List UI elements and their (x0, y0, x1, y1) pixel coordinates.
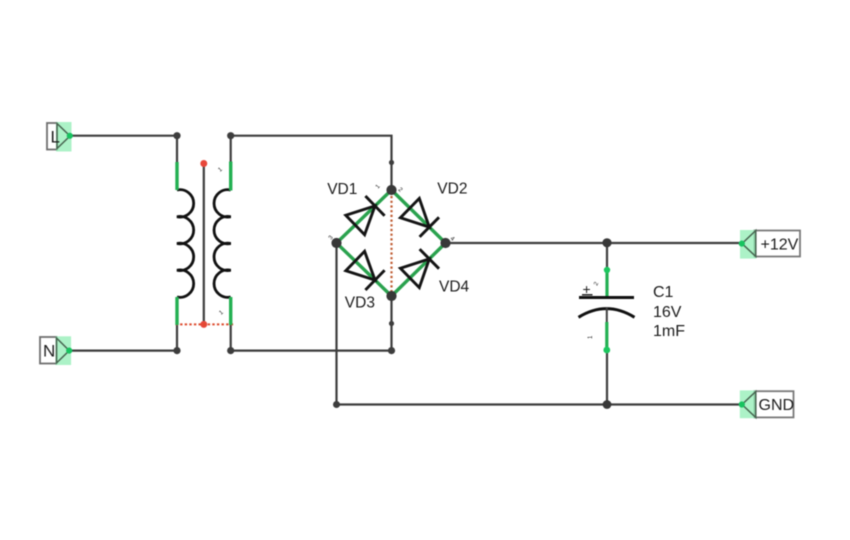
wire N to transformer primary bottom (69, 325, 177, 351)
svg-text:1mF: 1mF (653, 323, 685, 340)
svg-text:1: 1 (218, 309, 225, 316)
svg-text:VD1: VD1 (327, 181, 357, 198)
capacitor C1 top plate (579, 296, 634, 299)
terminal N (40, 336, 72, 365)
svg-text:N: N (43, 342, 55, 361)
transformer T1 secondary coil (214, 190, 231, 298)
diode VD1 (346, 196, 385, 235)
bridge vertex dot top (386, 185, 396, 195)
diode VD3 (346, 251, 385, 290)
bridge vertex dot bottom (386, 291, 396, 301)
svg-text:+12V: +12V (761, 237, 799, 254)
transformer core red dot bottom (200, 321, 207, 328)
svg-text:2: 2 (397, 187, 404, 194)
transformer red dashed line (176, 323, 234, 325)
wire secondary bottom to bridge bottom (231, 296, 392, 351)
bridge edge bottom-right (392, 243, 446, 296)
terminal GND (739, 390, 794, 418)
capacitor C1 pin bottom green (605, 322, 608, 350)
transformer pin highlight primary top (175, 162, 178, 190)
junction dot bridge top pin (389, 160, 394, 165)
wire bridge left vertex down to GND rail (335, 243, 337, 405)
junction dot L-wire corner (173, 132, 180, 139)
transformer T1 primary coil (177, 190, 194, 298)
terminal +12V (739, 230, 800, 259)
capacitor C1 stem (606, 308, 608, 324)
capacitor C1 pin top green (605, 268, 608, 297)
svg-text:1: 1 (217, 166, 224, 173)
bridge edge left-top (337, 190, 392, 243)
junction dot bridge bottom pin (389, 321, 394, 326)
wire L to transformer primary top (70, 136, 177, 162)
bridge vertex dot right (440, 238, 450, 248)
svg-text:1: 1 (375, 183, 382, 190)
transformer core line (203, 164, 205, 324)
wire +12V rail (446, 242, 742, 244)
junction dot cap bottom (603, 400, 612, 409)
svg-text:VD4: VD4 (439, 278, 470, 295)
diode VD4 (400, 249, 439, 288)
junction dot GND rail start (333, 401, 340, 408)
transformer core red dot top (200, 160, 207, 167)
terminal L (47, 122, 73, 152)
svg-text:2: 2 (593, 281, 600, 287)
wire GND rail (337, 403, 742, 405)
bridge inner dashed line (390, 196, 392, 291)
transformer pin highlight secondary top (229, 162, 232, 191)
svg-text:16V: 16V (653, 304, 682, 321)
bridge edge top-right (392, 190, 446, 243)
junction dot secondary top corner (227, 132, 234, 139)
diode VD2 (400, 198, 439, 237)
wire capacitor branch bottom (606, 349, 608, 405)
transformer pin highlight primary bottom (175, 297, 178, 325)
junction dot N-wire corner (173, 347, 180, 354)
svg-text:GND: GND (759, 397, 795, 414)
svg-text:VD3: VD3 (345, 295, 375, 312)
svg-text:1: 1 (588, 335, 594, 339)
svg-text:L: L (51, 128, 60, 147)
junction dot secondary bottom corner (227, 347, 234, 354)
svg-text:VD2: VD2 (437, 181, 467, 198)
svg-text:C1: C1 (653, 284, 674, 301)
capacitor C1 bottom curved plate (579, 309, 635, 318)
wire secondary top to bridge top (231, 136, 392, 190)
transformer pin highlight secondary bottom (229, 297, 232, 325)
bridge vertex dot left (331, 238, 341, 248)
junction dot cap top (602, 238, 611, 247)
junction dot bottom corner (388, 347, 395, 354)
wire capacitor branch top (606, 243, 608, 270)
bridge edge left-bottom (337, 243, 392, 296)
